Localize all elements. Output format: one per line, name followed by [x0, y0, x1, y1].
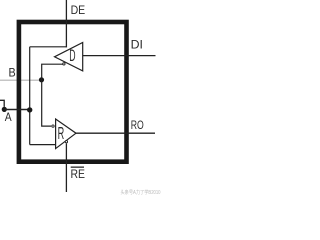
wire RE vertical [65, 144, 67, 193]
junction dot A net [27, 107, 32, 112]
svg-text:D: D [69, 46, 75, 65]
wire A-net to receiver noninverting input [30, 144, 56, 146]
driver D triangle [55, 43, 83, 71]
svg-text:A: A [5, 110, 12, 124]
wire DE vertical [65, 0, 67, 47]
wire RO horizontal [76, 132, 155, 134]
wire enable node horizontal (y=47) [30, 46, 67, 48]
svg-text:R: R [58, 123, 65, 143]
driver inverting-output bubble [63, 63, 65, 65]
wire B pin horizontal (gray) [0, 79, 42, 81]
wire B net down to receiver inverting input [42, 80, 52, 126]
IC body box U1 [19, 22, 127, 162]
junction dot at A terminal [2, 107, 7, 112]
pin label RE overline [71, 167, 84, 168]
svg-text:RE: RE [71, 167, 86, 181]
svg-text:DI: DI [131, 37, 143, 51]
wire DI horizontal [83, 55, 156, 57]
junction dot B net [39, 77, 44, 82]
pin A terminal stub [0, 100, 4, 107]
receiver inverting-input bubble [52, 125, 54, 127]
svg-text:DE: DE [71, 3, 86, 17]
wire driver bubble output to B net [42, 64, 63, 80]
receiver enable bubble [65, 141, 67, 143]
svg-text:RO: RO [131, 118, 144, 132]
receiver R triangle [56, 119, 76, 149]
wire A pin horizontal [4, 109, 30, 111]
svg-text:头条号A力了学B2010: 头条号A力了学B2010 [121, 189, 161, 196]
wire A-net vertical [29, 47, 31, 145]
svg-text:B: B [9, 65, 16, 79]
